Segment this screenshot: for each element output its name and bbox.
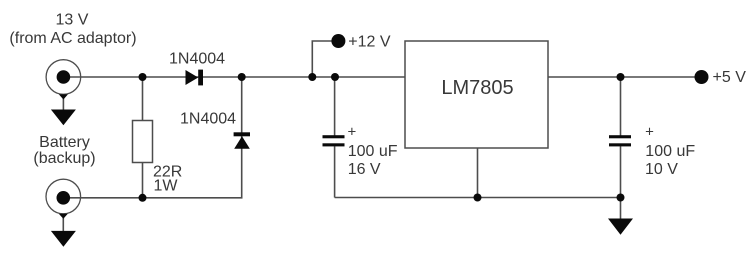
- wire battery rail: [63, 77, 241, 198]
- svg-text:+5 V: +5 V: [713, 69, 747, 86]
- node +12V tap: [308, 73, 316, 81]
- wire +12V tap: [312, 41, 333, 77]
- svg-text:(from AC adaptor): (from AC adaptor): [9, 30, 136, 47]
- svg-text:1W: 1W: [154, 178, 179, 195]
- svg-text:10 V: 10 V: [645, 161, 678, 178]
- node resistor bottom: [139, 194, 147, 202]
- wire resistor to battery rail: [142, 163, 144, 198]
- node ground pin: [474, 194, 482, 202]
- wire LM7805 ground pin: [477, 148, 479, 198]
- wire J2 stub: [62, 214, 64, 232]
- ground arrow below J1: [51, 110, 76, 126]
- wire ground bus: [335, 197, 621, 199]
- node resistor top: [139, 73, 147, 81]
- node C2 top: [617, 73, 625, 81]
- ground arrow bottom right: [608, 219, 633, 235]
- svg-text:(backup): (backup): [33, 150, 95, 167]
- svg-text:LM7805: LM7805: [441, 77, 513, 99]
- wire C2 branch lower: [620, 146, 622, 197]
- connector J2 (battery jack): [46, 179, 81, 219]
- terminal +12V: [331, 34, 345, 48]
- svg-text:100 uF: 100 uF: [645, 143, 695, 160]
- svg-text:13 V: 13 V: [56, 12, 89, 29]
- wire ground arrow stub: [620, 198, 622, 220]
- capacitor C2 100uF 10V: [609, 135, 631, 146]
- svg-text:100 uF: 100 uF: [348, 143, 398, 160]
- ground arrow below J2: [51, 231, 76, 247]
- resistor R1 22R 1W: [133, 121, 153, 163]
- wire main top rail: [63, 76, 405, 78]
- diode D2 1N4004 (vertical): [234, 132, 250, 149]
- capacitor C1 100uF 16V: [323, 135, 345, 146]
- svg-text:1N4004: 1N4004: [169, 51, 225, 68]
- wire J1 stub: [62, 94, 64, 110]
- connector J1 (AC adaptor jack): [46, 60, 81, 100]
- node C1 top: [331, 73, 339, 81]
- node D2 top: [238, 73, 246, 81]
- wire C1 branch lower: [334, 146, 336, 197]
- terminal +5V: [695, 70, 709, 84]
- svg-text:+: +: [348, 124, 357, 141]
- svg-text:+: +: [645, 124, 654, 141]
- node ground arrow: [617, 194, 625, 202]
- wire output rail: [548, 76, 697, 78]
- wire resistor branch: [142, 77, 144, 121]
- svg-text:1N4004: 1N4004: [180, 110, 236, 127]
- IC U1 LM7805 box: [405, 41, 548, 148]
- wire C2 branch upper: [620, 77, 622, 136]
- svg-text:+12 V: +12 V: [348, 33, 391, 50]
- svg-text:Battery: Battery: [39, 134, 90, 151]
- svg-text:16 V: 16 V: [348, 161, 381, 178]
- wire C1 branch upper: [334, 77, 336, 136]
- diode D1 1N4004 (horizontal): [186, 70, 204, 86]
